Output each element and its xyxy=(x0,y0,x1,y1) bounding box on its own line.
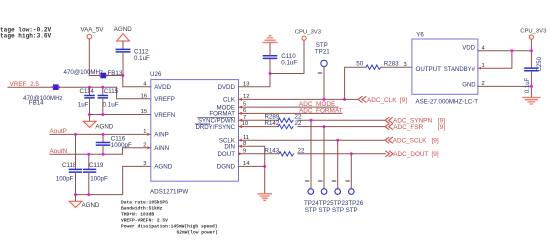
ground AGND bottom triangle xyxy=(69,201,100,209)
wire AGND pin 3 xyxy=(76,166,151,194)
svg-text:GND: GND xyxy=(462,82,476,88)
wire TP23 drop xyxy=(337,140,339,189)
wire VREF rail xyxy=(59,86,117,88)
svg-text:VREFP: VREFP xyxy=(154,96,175,103)
op-amp U26 ADS1271IPW body xyxy=(150,71,239,196)
wire TP25 drop xyxy=(323,127,325,189)
svg-text:22: 22 xyxy=(298,147,305,154)
note ADC specs text xyxy=(121,199,218,235)
wire DVDD pin 13 xyxy=(239,74,271,87)
svg-text:100pF: 100pF xyxy=(90,176,108,183)
wire VREF_2.5 to FB14 xyxy=(8,86,53,88)
svg-text:1uF: 1uF xyxy=(78,102,89,109)
test point TP25 xyxy=(319,181,327,194)
svg-text:R143: R143 xyxy=(264,147,279,154)
node C118 top junction xyxy=(74,133,77,136)
ground DGND bars xyxy=(258,194,271,201)
svg-text:AINP: AINP xyxy=(154,132,168,139)
svg-text:ADC_DOUT: ADC_DOUT xyxy=(393,151,428,158)
pin arrow DOUT xyxy=(239,152,243,155)
test point TP23 xyxy=(332,181,340,194)
node C116 top junction xyxy=(102,133,105,136)
capacitor C110 0.1uF xyxy=(264,43,298,74)
node C119 top junction xyxy=(87,153,90,156)
svg-text:AVDD: AVDD xyxy=(154,84,171,91)
net label ADC_DOUT xyxy=(386,151,439,158)
svg-text:62mW(low power): 62mW(low power) xyxy=(177,229,218,235)
svg-text:THD+N: 103dB: THD+N: 103dB xyxy=(121,211,154,217)
node C115 bottom junction xyxy=(101,113,104,116)
svg-text:1000pF: 1000pF xyxy=(111,142,132,149)
svg-text:Data rate:105kSPS: Data rate:105kSPS xyxy=(121,199,168,205)
wire pin 7 to R289 xyxy=(239,119,279,121)
pin arrow AINP xyxy=(147,133,151,136)
svg-text:ADC_CLK: ADC_CLK xyxy=(367,97,397,104)
svg-text:DGND: DGND xyxy=(217,164,236,171)
svg-text:0.1uF: 0.1uF xyxy=(281,59,297,66)
ferrite bead FB13 xyxy=(64,69,123,78)
capacitor C116 1000pF xyxy=(97,134,133,154)
svg-text:470@100MHz: 470@100MHz xyxy=(64,69,104,76)
wire DGND pin 14 xyxy=(239,165,265,167)
svg-text:ADS1271IPW: ADS1271IPW xyxy=(150,189,188,196)
test point TP21 xyxy=(315,42,330,73)
ground AGND mid triangle xyxy=(83,121,114,130)
svg-text:AGND: AGND xyxy=(154,164,172,171)
svg-text:1: 1 xyxy=(143,129,146,135)
test point TP26 xyxy=(346,181,354,194)
capacitor C112 0.1uF xyxy=(116,49,150,62)
net label ADC_SCLK xyxy=(385,137,439,144)
node DIN DGND junction xyxy=(263,165,266,168)
wire ADC_MODE net xyxy=(239,106,339,108)
svg-text:DOUT: DOUT xyxy=(217,151,235,158)
node R283 branch junction xyxy=(343,98,346,101)
net label ADC_CLK xyxy=(358,97,407,104)
pin arrow DRDY xyxy=(239,125,243,128)
svg-text:R142: R142 xyxy=(265,120,280,127)
svg-text:3: 3 xyxy=(143,161,146,167)
svg-text:U26: U26 xyxy=(150,71,162,78)
svg-text:STP STP STP STP: STP STP STP STP xyxy=(305,207,358,214)
svg-text:AGND: AGND xyxy=(114,26,132,33)
node TP24 junction xyxy=(310,119,313,122)
svg-text:C119: C119 xyxy=(89,162,104,169)
svg-text:STANDBY#: STANDBY# xyxy=(444,67,476,73)
capacitor C119 100pF xyxy=(84,154,108,194)
svg-text:CPU_3V3: CPU_3V3 xyxy=(520,29,547,35)
net label ADC_SYNPN xyxy=(385,118,445,125)
node VDD junction xyxy=(530,49,533,52)
svg-text:0.1uF: 0.1uF xyxy=(134,55,150,62)
svg-text:Bandwidth:51kHz: Bandwidth:51kHz xyxy=(121,205,163,211)
capacitor C115 0.1uF xyxy=(98,87,118,114)
svg-text:[9]: [9] xyxy=(432,151,439,158)
wire ADC_SCLK net xyxy=(239,139,386,141)
pin arrow SYNC xyxy=(239,119,243,122)
svg-text:[9]: [9] xyxy=(432,138,439,145)
wire AoutP to pin 1 xyxy=(50,133,151,135)
wire ADC_FSR net xyxy=(298,126,385,128)
wire TP24 drop xyxy=(310,120,312,188)
wire C250 down xyxy=(530,71,532,97)
svg-text:AGND: AGND xyxy=(95,123,113,130)
svg-text:Power dissipation:145mW(high s: Power dissipation:145mW(high speed) xyxy=(121,223,218,229)
wire to AGND bottom xyxy=(75,195,77,201)
resistor R283 50 xyxy=(356,60,399,69)
svg-text:AGND: AGND xyxy=(82,202,100,209)
wire AGND to C112 xyxy=(122,41,124,49)
wire Y6 VDD pin 4 xyxy=(478,50,532,52)
svg-text:VREFN: VREFN xyxy=(154,112,175,119)
svg-text:AINN: AINN xyxy=(154,145,169,152)
wire to AGND mid xyxy=(89,115,91,122)
wire ADC_CLK net xyxy=(239,98,358,100)
wire VREFN pin 15 rail xyxy=(89,114,151,116)
node DVDD junction xyxy=(269,72,272,75)
wire pin 10 to R142 xyxy=(239,126,279,128)
svg-text:OUTPUT: OUTPUT xyxy=(416,66,442,73)
capacitor C114 1uF xyxy=(78,87,95,114)
oscillator Y6 body xyxy=(412,31,478,105)
pin arrow DIN xyxy=(239,145,243,148)
pin arrow FORMAT xyxy=(239,112,243,115)
pin arrow SCLK xyxy=(239,139,243,142)
resistor R289 22 xyxy=(265,114,302,123)
svg-text:[9]: [9] xyxy=(400,97,407,104)
power symbol CPU_3V3 right xyxy=(520,29,547,40)
svg-text:TP24TP25TP23TP26: TP24TP25TP23TP26 xyxy=(304,200,364,207)
node C114 top junction xyxy=(88,86,91,89)
wire TP26 drop xyxy=(350,154,352,189)
node STANDBY junction xyxy=(510,49,513,52)
svg-text:50: 50 xyxy=(356,60,363,67)
wire ADC_DOUT net xyxy=(298,153,386,155)
wire TP21 to CLK net xyxy=(323,67,325,100)
pin arrow STANDBY xyxy=(478,67,481,70)
capacitor C250 0.1uF xyxy=(525,56,543,93)
capacitor C118 100pF xyxy=(56,134,82,194)
ground below C250 bars xyxy=(523,98,540,105)
wire VAA_5V vertical xyxy=(88,39,90,76)
svg-text:tage high:3.6V: tage high:3.6V xyxy=(0,33,52,40)
svg-text:CPU_3V3: CPU_3V3 xyxy=(295,30,322,36)
pin arrow MODE xyxy=(239,106,243,109)
power symbol VAA_5V xyxy=(81,27,105,39)
svg-text:C114: C114 xyxy=(80,88,95,95)
svg-text:AoutP: AoutP xyxy=(50,128,67,135)
svg-text:ADC_SCLK: ADC_SCLK xyxy=(393,138,427,145)
resistor R143 22 xyxy=(264,147,305,156)
svg-text:16: 16 xyxy=(141,93,147,99)
node TP25 junction xyxy=(323,125,326,128)
svg-text:VREFP-VREFN: 2.5V: VREFP-VREFN: 2.5V xyxy=(121,217,168,223)
svg-text:[9]: [9] xyxy=(438,124,445,131)
wire FB13 to AVDD node xyxy=(106,75,123,77)
svg-text:CLK: CLK xyxy=(223,97,236,104)
svg-text:22: 22 xyxy=(295,120,302,127)
pin numbers U26 right xyxy=(242,81,251,167)
wire Y6 STANDBY pin 1 xyxy=(478,51,512,68)
svg-text:2: 2 xyxy=(143,142,146,148)
note voltage limits text xyxy=(0,27,52,40)
svg-text:DVDD: DVDD xyxy=(217,84,235,91)
svg-text:100pF: 100pF xyxy=(56,176,74,183)
pin numbers Y6 xyxy=(404,45,486,87)
wire CPU_3V3 down xyxy=(530,39,532,68)
svg-text:DIN: DIN xyxy=(224,144,235,151)
wire DVDD node to CPU_3V3 xyxy=(270,40,304,73)
wire C112 to AVDD node xyxy=(122,52,124,76)
svg-text:Y6: Y6 xyxy=(416,31,424,38)
wire VREF rail corner to pin 16 xyxy=(117,87,151,99)
wire VAA_5V to FB13 xyxy=(89,75,100,77)
wire DOUT pin 9 to R143 xyxy=(239,153,279,155)
svg-text:VAA_5V: VAA_5V xyxy=(81,27,105,34)
svg-text:VDD: VDD xyxy=(462,46,475,52)
wire R283 branch xyxy=(345,67,366,99)
power symbol CPU_3V3 mid xyxy=(295,30,322,41)
node AVDD junction xyxy=(121,74,124,77)
node TP23 junction xyxy=(336,139,339,142)
svg-text:ASE-27.000MHZ-LC-T: ASE-27.000MHZ-LC-T xyxy=(416,99,479,106)
wire ADC_FORMAT net xyxy=(239,112,343,114)
test point bottom labels xyxy=(304,200,364,214)
node TP21 junction xyxy=(323,98,326,101)
node GND junction xyxy=(530,85,533,88)
wire AVDD node down to pin 4 xyxy=(123,76,151,87)
wire AoutN xyxy=(50,148,151,155)
svg-text:FB14: FB14 xyxy=(29,99,44,106)
wire DIN pin 8 xyxy=(239,146,265,166)
svg-text:TP21: TP21 xyxy=(315,49,330,56)
svg-text:C118: C118 xyxy=(62,162,77,169)
wire ADC_SYNPN net xyxy=(298,119,385,121)
wire Y6 GND pin 2 xyxy=(478,85,532,87)
node C116 bottom junction xyxy=(102,153,105,156)
svg-text:0.1uF: 0.1uF xyxy=(103,102,119,109)
svg-text:ADC_FORMAT: ADC_FORMAT xyxy=(299,108,343,115)
node C118 bottom junction xyxy=(74,193,77,196)
node C114 bottom junction xyxy=(88,113,91,116)
svg-text:C250: C250 xyxy=(537,56,543,71)
svg-text:DRDY/FSYNC: DRDY/FSYNC xyxy=(196,124,236,131)
ground AGND above C112 xyxy=(114,26,132,41)
ferrite bead FB14 xyxy=(23,84,63,106)
wire DGND down xyxy=(264,166,266,193)
svg-text:0.1uF: 0.1uF xyxy=(525,77,531,93)
svg-text:15: 15 xyxy=(141,109,147,115)
resistor R142 22 xyxy=(265,120,302,129)
ground inverted above C110 xyxy=(263,36,277,43)
pin numbers U26 left xyxy=(141,81,148,167)
node C119 bottom junction xyxy=(87,193,90,196)
net label ADC_FSR xyxy=(385,124,445,131)
wire R283 to Y6 pin 3 xyxy=(381,66,412,68)
node TP26 junction xyxy=(350,152,353,155)
svg-text:C115: C115 xyxy=(104,88,119,95)
pin arrow AINN xyxy=(147,146,151,149)
node C115 top junction xyxy=(101,86,104,89)
pin arrow CLK xyxy=(239,98,243,101)
test point TP24 xyxy=(305,181,313,194)
svg-text:3: 3 xyxy=(404,62,407,68)
svg-text:R283: R283 xyxy=(384,60,399,67)
svg-text:ADC_FSR: ADC_FSR xyxy=(393,124,423,131)
